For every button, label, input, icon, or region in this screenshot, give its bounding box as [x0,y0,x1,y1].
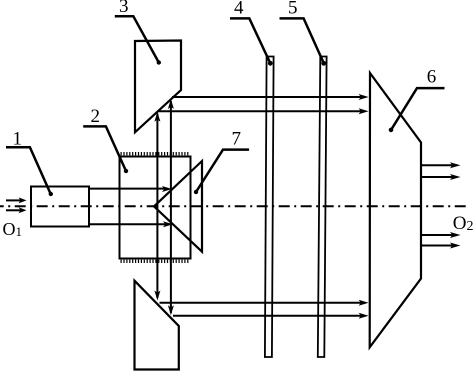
input beam arrow upper [6,197,27,203]
label 2 with leader [83,106,128,173]
svg-text:7: 7 [232,129,242,150]
beam A: prism 3 to prism 6 [172,94,369,100]
label 1 with leader [6,129,53,197]
hatch ticks below box 2 bottom edge [121,260,191,263]
vertical beam V2 with up/down arrows [168,99,174,315]
box 2 (modulator cell) [120,157,191,259]
svg-text:3: 3 [119,0,129,17]
plate 5 (thin slab) [318,57,327,358]
svg-text:5: 5 [288,0,298,19]
label 4 with leader [230,0,270,62]
output beam arrow 2 [421,174,461,180]
label 7 with leader [194,129,249,195]
beam D: lower mirror to prism 6 [173,313,369,319]
svg-text:2: 2 [91,106,101,127]
plate 4 (thin slab) [265,57,274,358]
beam: box1 to prism7 lower [89,221,173,227]
label 3 with leader [115,0,161,65]
svg-text:6: 6 [427,67,437,88]
beam C: lower mirror to prism 6 [160,300,369,306]
output beam arrow 3 [421,232,461,238]
prism 3 (upper deflecting mirror) [135,41,181,133]
svg-text:4: 4 [234,0,244,19]
output beam arrow 4 [421,243,461,249]
prism 6 (output trapezoid prism) [370,73,421,347]
beam: box1 to prism7 upper [89,186,172,192]
box 1 (light source / collimator) [31,187,89,227]
prism 7 (beam-splitting triangle) [154,161,202,252]
dot on plate 4 [268,61,273,66]
beam B: prism 3 to prism 6 [159,108,369,114]
svg-text:O2: O2 [453,213,474,234]
input beam arrow lower [6,207,27,213]
svg-text:O1: O1 [3,219,23,239]
label 5 with leader [280,0,324,62]
label 6 with leader [389,67,445,133]
dot on plate 5 [321,61,326,66]
vertical beam V1 with up/down arrows [154,112,160,301]
hatch ticks above box 2 top edge [121,152,191,155]
output beam arrow 1 [421,162,461,168]
lower deflecting mirror prism [135,281,179,370]
optical axis O1-O2 (dash-dot centerline) [0,205,468,207]
